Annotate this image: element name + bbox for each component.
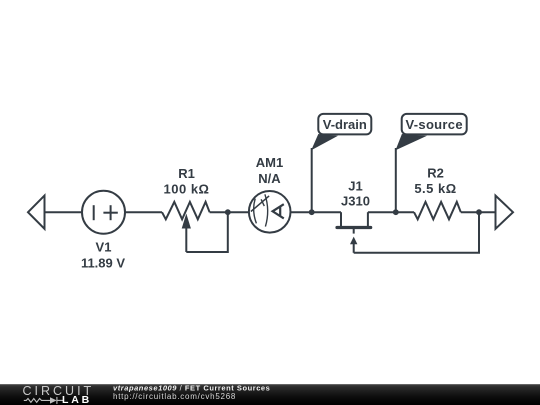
svg-text:11.89 V: 11.89 V [81, 255, 125, 270]
svg-text:V-drain: V-drain [323, 117, 367, 132]
wire R1 to AM1 [210, 211, 249, 213]
wire J1 source to R2 [368, 211, 414, 213]
transistor J1 (N-JFET) [337, 212, 371, 253]
svg-text:J1: J1 [348, 178, 362, 193]
flag V-drain pointer [311, 134, 338, 150]
wire J1 gate loop [354, 212, 479, 253]
footer bar [0, 384, 540, 405]
node V-source junction [393, 209, 399, 215]
svg-text:N/A: N/A [258, 171, 281, 186]
svg-text:J310: J310 [341, 194, 370, 209]
wire IN to V1 [45, 211, 83, 213]
node V-drain junction [309, 209, 315, 215]
flag V-source pointer [396, 134, 428, 150]
svg-text:V-source: V-source [406, 117, 463, 132]
wire R2 to OUT [461, 211, 496, 213]
R1 wiper arrow [182, 214, 191, 253]
junction node after R1 [225, 209, 231, 215]
svg-text:V1: V1 [96, 240, 112, 255]
svg-text:AM1: AM1 [256, 155, 283, 170]
svg-text:100 kΩ: 100 kΩ [164, 181, 210, 196]
flag V-drain box [318, 114, 371, 134]
svg-text:LAB: LAB [62, 394, 92, 405]
footer logo zigzag and diode [24, 397, 63, 404]
wire V-drain flag stem [311, 148, 313, 212]
wire R1 wiper loop [186, 212, 228, 252]
svg-text:http://circuitlab.com/cvh5268: http://circuitlab.com/cvh5268 [113, 392, 236, 401]
wire AM1 to J1 drain [291, 211, 342, 213]
resistor R1 (potentiometer body) [162, 202, 210, 219]
wire V-source flag stem [395, 148, 397, 212]
flag V-source box [402, 114, 467, 134]
ammeter AM1 [249, 191, 291, 233]
node after R2 junction [476, 209, 482, 215]
terminal IN (left input terminal) [28, 196, 45, 229]
svg-text:R1: R1 [178, 166, 195, 181]
voltage source V1 [82, 191, 125, 234]
svg-text:5.5 kΩ: 5.5 kΩ [414, 181, 456, 196]
resistor R2 [414, 202, 461, 219]
svg-text:R2: R2 [427, 166, 444, 181]
terminal OUT (right output terminal) [496, 196, 514, 229]
wire V1 to R1 [125, 211, 162, 213]
